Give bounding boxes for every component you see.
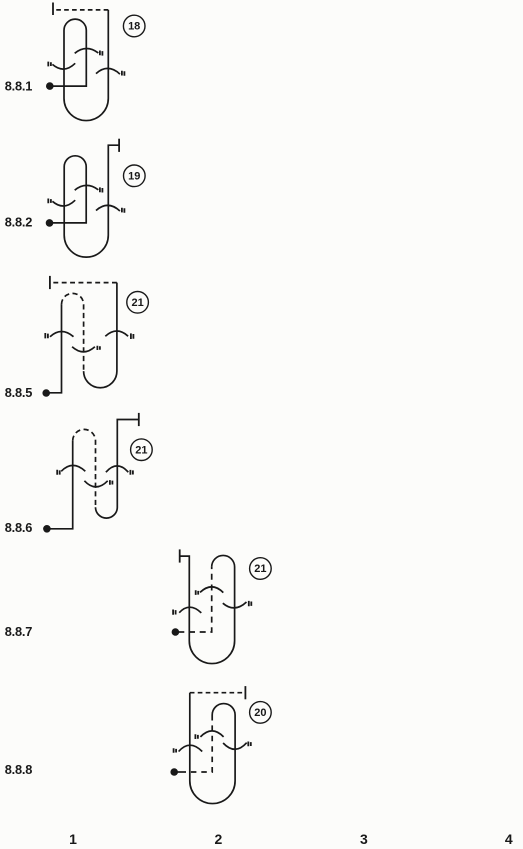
- svg-text:2: 2: [215, 831, 223, 847]
- crossing marks right 8.8.1: [122, 71, 125, 76]
- svg-text:8.8.8: 8.8.8: [5, 762, 33, 777]
- svg-text:21: 21: [254, 563, 266, 575]
- svg-text:18: 18: [128, 21, 140, 33]
- wire: solid U-turn, outer riser and top lead 8.8.6: [96, 420, 139, 519]
- crossing hop arc middle 8.8.2: [75, 185, 99, 190]
- crossing marks right 8.8.8: [248, 742, 251, 747]
- wire: solid cord lower-left 8.8.5: [46, 304, 61, 392]
- crossing hop arc right 8.8.8: [223, 743, 247, 750]
- crossing hop arc upper-middle 8.8.7: [200, 587, 223, 593]
- diagram 8.8.6 cord path: [43, 413, 152, 533]
- wire: dashed inner loop 8.8.5: [62, 293, 84, 371]
- start dot (bobbin) 8.8.6: [43, 525, 51, 533]
- wire: solid U-turn and outer riser 8.8.5: [84, 283, 117, 388]
- crossing hop arc left 8.8.5: [50, 332, 74, 337]
- wire: dashed lead and inner riser 8.8.8: [186, 715, 212, 772]
- svg-text:8.8.6: 8.8.6: [5, 520, 33, 535]
- wire: solid cord 8.8.2: [50, 145, 120, 257]
- diagram 8.8.7 cord path: [172, 549, 272, 663]
- svg-text:21: 21: [135, 444, 147, 456]
- crossing marks right 8.8.7: [249, 601, 252, 606]
- cord end tick 8.8.6: [138, 413, 140, 426]
- crossing hop arc middle 8.8.6: [84, 481, 107, 487]
- crossing hop arc left 8.8.1: [52, 63, 75, 69]
- crossing hop arc left 8.8.8: [179, 745, 203, 751]
- wire: dashed top lead 8.8.8: [190, 692, 246, 694]
- crossing marks left 8.8.2: [48, 199, 51, 204]
- crossing marks right 8.8.5: [131, 333, 134, 339]
- diagram 8.8.5 cord path: [42, 276, 148, 397]
- start dot (bobbin) 8.8.7: [172, 628, 180, 636]
- crossing hop arc upper-middle 8.8.8: [200, 731, 223, 737]
- wire: dashed inner loop 8.8.6: [73, 429, 96, 507]
- wire: solid cord lower-left 8.8.6: [47, 441, 73, 529]
- crossing hop arc right 8.8.2: [96, 205, 120, 211]
- crossing marks left 8.8.1: [48, 62, 51, 67]
- crossing hop arc middle 8.8.1: [75, 48, 99, 53]
- crossing marks right 8.8.6: [130, 470, 133, 475]
- start dot (bobbin) 8.8.2: [46, 219, 54, 227]
- reference circle 21 (8.8.5): [127, 292, 149, 314]
- cord end tick 8.8.2: [118, 139, 120, 152]
- crossing marks left 8.8.6: [57, 470, 60, 475]
- crossing marks left 8.8.8: [174, 748, 177, 753]
- cord end tick 8.8.8: [244, 686, 246, 699]
- wire: solid loop 8.8.8 (top arc, right side, bottom U-turn, left riser): [190, 693, 235, 804]
- crossing hop arc left 8.8.7: [179, 607, 201, 613]
- wire: dashed lead and inner riser 8.8.7: [184, 567, 211, 632]
- svg-text:20: 20: [254, 707, 266, 719]
- reference circle 19: [124, 165, 146, 187]
- wire: solid stub at dot 8.8.7: [175, 631, 184, 633]
- crossing hop arc right 8.8.5: [105, 331, 128, 336]
- svg-text:1: 1: [69, 831, 77, 847]
- start dot (bobbin) 8.8.1: [46, 82, 54, 90]
- cord end tick 8.8.1: [52, 3, 54, 16]
- crossing marks middle 8.8.2: [100, 187, 103, 192]
- wire: dashed top lead 8.8.1: [53, 9, 108, 11]
- crossing marks middle 8.8.6: [110, 480, 113, 485]
- crossing marks upper-middle 8.8.7: [196, 590, 199, 595]
- crossing hop arc left 8.8.6: [61, 465, 85, 471]
- svg-text:3: 3: [360, 831, 368, 847]
- crossing marks upper-middle 8.8.8: [195, 734, 198, 739]
- start dot (bobbin) 8.8.8: [170, 768, 178, 776]
- crossing hop arc right 8.8.6: [106, 466, 128, 472]
- crossing marks middle 8.8.1: [100, 51, 103, 56]
- crossing marks left 8.8.5: [45, 333, 48, 338]
- cord end tick 8.8.5: [49, 276, 51, 289]
- cord end tick 8.8.7: [179, 549, 181, 562]
- reference circle 20: [250, 702, 272, 724]
- crossing hop arc right 8.8.1: [96, 68, 120, 74]
- svg-text:8.8.5: 8.8.5: [5, 385, 33, 400]
- diagram 8.8.8 cord path: [170, 686, 271, 803]
- svg-text:8.8.1: 8.8.1: [5, 79, 33, 94]
- svg-text:8.8.2: 8.8.2: [5, 214, 33, 229]
- crossing marks right 8.8.2: [122, 208, 125, 213]
- reference circle 21 (8.8.7): [250, 558, 272, 580]
- reference circle 18: [123, 15, 145, 37]
- svg-text:19: 19: [128, 170, 140, 182]
- reference circle 21 (8.8.6): [131, 439, 153, 461]
- wire: solid loop 8.8.7 (top arc, right side, bottom U-turn, left riser, top lead): [180, 555, 235, 663]
- diagram 8.8.1 cord path: [46, 3, 145, 121]
- wire: solid cord 8.8.1 (dot, up inner loop, down, bottom U-turn, up outer): [50, 10, 109, 121]
- crossing marks left 8.8.7: [173, 610, 176, 615]
- crossing hop arc left 8.8.2: [52, 200, 75, 206]
- svg-text:4: 4: [505, 831, 513, 847]
- start dot (bobbin) 8.8.5: [42, 389, 50, 397]
- crossing hop arc right 8.8.7: [223, 602, 247, 608]
- wire: dashed top lead 8.8.5: [50, 282, 117, 284]
- svg-text:8.8.7: 8.8.7: [5, 624, 33, 639]
- wire: solid stub at dot 8.8.8: [174, 771, 186, 773]
- crossing marks middle 8.8.5: [97, 346, 100, 350]
- crossing hop arc middle 8.8.5: [72, 347, 95, 352]
- diagram 8.8.2 cord path: [46, 139, 145, 257]
- svg-text:21: 21: [131, 297, 143, 309]
